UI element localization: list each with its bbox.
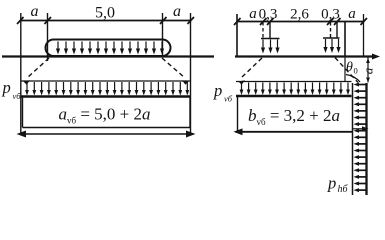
svg-text:a: a (348, 6, 356, 22)
svg-text:bvб = 3,2 + 2a: bvб = 3,2 + 2a (248, 106, 340, 127)
svg-text:0,3: 0,3 (259, 7, 278, 23)
svg-text:hб: hб (338, 184, 349, 195)
svg-text:avб = 5,0 + 2a: avб = 5,0 + 2a (58, 105, 150, 126)
svg-text:2,6: 2,6 (290, 7, 309, 23)
svg-text:p: p (327, 174, 336, 193)
svg-text:a: a (31, 3, 39, 20)
svg-text:a: a (173, 3, 181, 20)
svg-text:vб: vб (224, 94, 233, 104)
svg-text:5,0: 5,0 (95, 5, 115, 22)
svg-text:θ: θ (346, 60, 353, 75)
svg-text:p: p (2, 78, 11, 97)
svg-text:0: 0 (354, 66, 358, 76)
svg-text:vб: vб (13, 91, 22, 101)
svg-text:a: a (361, 67, 376, 74)
svg-text:0,3: 0,3 (321, 7, 340, 23)
svg-text:p: p (213, 81, 222, 100)
svg-text:a: a (249, 6, 257, 22)
